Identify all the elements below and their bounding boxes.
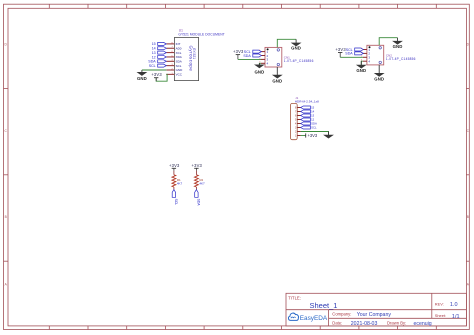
svg-text:+3V3: +3V3	[335, 47, 346, 52]
svg-text:SDA: SDA	[345, 52, 353, 56]
svg-text:+3V3: +3V3	[233, 49, 244, 54]
svg-text:4K7: 4K7	[177, 182, 183, 186]
svg-text:REV:: REV:	[435, 301, 444, 306]
svg-text:GND: GND	[272, 78, 282, 83]
svg-text:GND: GND	[291, 46, 301, 51]
svg-text:SCL: SCL	[311, 126, 317, 130]
svg-text:SDA: SDA	[197, 199, 201, 207]
svg-text:GND: GND	[137, 76, 147, 81]
svg-text:1-0T-4P_C145856: 1-0T-4P_C145856	[284, 59, 314, 63]
svg-text:+3V3: +3V3	[169, 163, 180, 168]
svg-text:SCL: SCL	[174, 199, 178, 206]
svg-text:+3V3: +3V3	[151, 72, 162, 77]
svg-text:Company:: Company:	[332, 311, 351, 316]
svg-text:1-0T-4P_C145856: 1-0T-4P_C145856	[386, 57, 416, 61]
svg-text:B: B	[467, 215, 469, 219]
svg-text:Drawn By:: Drawn By:	[387, 320, 406, 325]
svg-text:4K7: 4K7	[199, 182, 205, 186]
svg-text:GND: GND	[374, 76, 384, 81]
svg-text:Sheet:: Sheet:	[435, 313, 446, 318]
svg-text:HDR-M-2.54_1x8: HDR-M-2.54_1x8	[295, 100, 319, 104]
svg-text:Your Company: Your Company	[357, 312, 392, 318]
svg-text:1/1: 1/1	[452, 314, 460, 320]
svg-text:ecenuig: ecenuig	[414, 321, 432, 327]
svg-text:GY521 MODULE DOCUMENT: GY521 MODULE DOCUMENT	[178, 32, 224, 36]
svg-text:1.0: 1.0	[450, 302, 458, 308]
svg-text:2021-08-03: 2021-08-03	[351, 321, 378, 327]
svg-text:GND: GND	[356, 68, 366, 73]
svg-text:SCL: SCL	[149, 64, 156, 68]
svg-text:+3V3: +3V3	[192, 163, 203, 168]
svg-text:GND: GND	[254, 69, 264, 74]
svg-text:Date:: Date:	[332, 320, 342, 325]
svg-text:GY-521: GY-521	[192, 48, 196, 59]
svg-text:GND: GND	[393, 44, 403, 49]
svg-text:TITLE:: TITLE:	[288, 296, 301, 301]
svg-text:EasyEDA: EasyEDA	[300, 315, 328, 322]
svg-text:VCC: VCC	[176, 73, 183, 77]
svg-text:Sheet_1: Sheet_1	[310, 301, 338, 310]
svg-text:SDA: SDA	[243, 54, 251, 58]
svg-text:+3V3: +3V3	[308, 133, 318, 138]
svg-text:B: B	[5, 215, 7, 219]
